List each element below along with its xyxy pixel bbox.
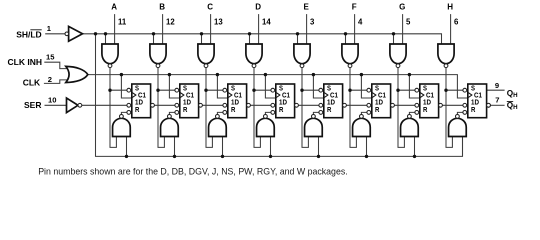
svg-text:9: 9: [495, 81, 499, 90]
svg-text:R: R: [471, 105, 476, 114]
svg-text:CLK: CLK: [23, 78, 41, 88]
svg-text:G: G: [399, 2, 405, 11]
svg-text:6: 6: [454, 18, 459, 27]
svg-text:H: H: [447, 2, 453, 11]
svg-text:F: F: [352, 2, 357, 11]
svg-text:SER: SER: [24, 100, 41, 110]
svg-text:R: R: [327, 105, 332, 114]
svg-text:CLK INH: CLK INH: [8, 57, 42, 67]
svg-text:12: 12: [166, 18, 175, 27]
svg-text:C: C: [207, 2, 213, 11]
svg-text:R: R: [279, 105, 284, 114]
svg-text:2: 2: [48, 75, 52, 84]
svg-text:R: R: [183, 105, 188, 114]
svg-text:4: 4: [358, 18, 363, 27]
svg-text:5: 5: [406, 18, 411, 27]
svg-text:B: B: [159, 2, 165, 11]
svg-text:R: R: [231, 105, 236, 114]
svg-text:D: D: [255, 2, 261, 11]
svg-text:14: 14: [262, 18, 271, 27]
svg-text:13: 13: [214, 18, 223, 27]
svg-text:R: R: [135, 105, 140, 114]
svg-text:E: E: [304, 2, 310, 11]
svg-text:10: 10: [48, 95, 56, 104]
svg-text:15: 15: [46, 53, 55, 62]
svg-text:A: A: [111, 2, 117, 11]
svg-text:3: 3: [310, 18, 315, 27]
svg-text:11: 11: [118, 18, 127, 27]
svg-text:R: R: [375, 105, 380, 114]
svg-text:Pin numbers shown are for the: Pin numbers shown are for the D, DB, DGV…: [38, 166, 348, 176]
svg-text:7: 7: [495, 95, 499, 104]
svg-text:SH/LD: SH/LD: [16, 29, 42, 39]
svg-text:R: R: [423, 105, 428, 114]
